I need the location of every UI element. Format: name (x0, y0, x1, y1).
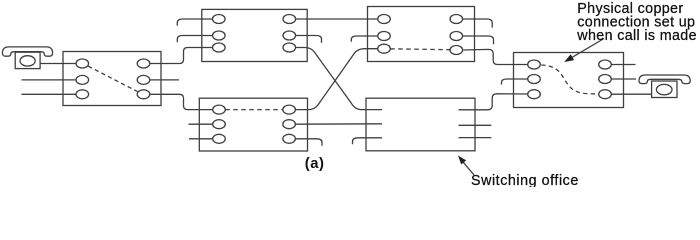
wire: trunk B row3 diagonal down to office E row1 (296, 48, 382, 110)
jack F-L1 (528, 60, 541, 69)
switching office E (bottom right) (366, 98, 475, 151)
jack F-R2 (599, 75, 612, 84)
switching office D (top right) (368, 7, 475, 62)
wire: trunk stub D right row2 (hooked) (463, 36, 494, 44)
jack A-L1 (76, 59, 89, 68)
wire: D row3 stepped down to office F row1 (copper path) (463, 49, 527, 64)
switching office F (right end office) (514, 53, 624, 108)
jack B-L2 (213, 31, 226, 40)
jack B-R2 (283, 31, 296, 40)
jack D-R1 (450, 15, 463, 24)
jack B-L3 (213, 43, 226, 52)
switching office A (left end office) (63, 52, 161, 106)
jack B-L1 (213, 15, 226, 24)
wire: trunk stub C left row2 (189, 123, 213, 125)
wire: trunk C row1 diagonal up to office D row3 (295, 49, 377, 110)
svg-text:when call is made: when call is made (576, 28, 697, 44)
wire: trunk stub F left row2 (hooked) (502, 79, 528, 85)
telephone T1 (left) (2, 47, 52, 69)
jack D-L3 (378, 44, 391, 53)
svg-text:Switching office: Switching office (471, 173, 579, 187)
wire: trunk B row1 to office D row1 (296, 18, 378, 20)
jack C-L3 (213, 134, 226, 143)
dashed connection inside office F (set-up call path) (541, 65, 598, 94)
switching office C (bottom middle) (199, 98, 307, 151)
wire: trunk stub into B row2 (hooked) (177, 36, 212, 43)
wire: trunk stub C row3 (hooked) (295, 139, 322, 146)
dashed connection inside office A (88, 66, 137, 91)
wire: local loop stub A left row2 (22, 79, 77, 81)
wire: A row3 down to office C row1 (150, 94, 213, 109)
wire: trunk stub F right row2 (611, 78, 636, 80)
jack B-R1 (283, 15, 296, 24)
jack D-R2 (450, 32, 463, 41)
jack C-L1 (213, 105, 226, 114)
jack D-L1 (378, 15, 391, 24)
jack C-R2 (283, 120, 296, 129)
jack C-R3 (283, 134, 296, 143)
wire: E left row3 stub (hooked) (353, 138, 383, 144)
jack F-L2 (528, 75, 541, 84)
wire: A row1 up to office B row3 (150, 48, 213, 64)
jack C-R1 (283, 105, 296, 114)
wire: trunk stub A right row2 (150, 79, 179, 81)
jack C-L2 (213, 120, 226, 129)
wire: trunk stub C left row3 (189, 138, 213, 140)
wire: local loop stub A left row3 (22, 93, 77, 95)
annotation arrow: physical copper connection (564, 39, 604, 63)
jack D-R3 (450, 46, 463, 55)
wire: trunk stub F right row1 (611, 64, 635, 66)
wire: trunk stub D right row1 (hooked) (463, 19, 493, 28)
switching office B (top middle) (202, 9, 307, 61)
telephone T2 (right) (639, 75, 690, 98)
jack F-R3 (599, 90, 612, 99)
jack A-L2 (76, 75, 89, 84)
jack A-R3 (137, 90, 150, 99)
jack F-L3 (528, 90, 541, 99)
wire: E right row2 stub (459, 124, 492, 126)
wire: trunk stub B row2 (hooked) (296, 36, 322, 43)
svg-text:(a): (a) (305, 156, 325, 172)
wire: office F row3 to right phone (611, 93, 651, 95)
jack A-L3 (76, 90, 89, 99)
wire: trunk C row2 to office E row2 (295, 123, 382, 125)
wire: left phone to office A row1 (40, 63, 76, 65)
wire: E right row3 stub (459, 137, 492, 139)
wire: trunk stub into B row1 (hooked) (177, 19, 212, 26)
jack B-R3 (283, 43, 296, 52)
dashed connection inside office C row1 (225, 109, 282, 111)
jack A-R1 (137, 59, 150, 68)
wire: trunk stub D left row2 (hooked) (351, 36, 377, 42)
jack D-L2 (378, 32, 391, 41)
annotation arrow: switching office (458, 156, 474, 176)
jack F-R1 (599, 60, 612, 69)
wire: E row1 stepped up to office F row3 (459, 94, 528, 110)
dashed connection inside office D row3 (390, 48, 450, 51)
jack A-R2 (137, 75, 150, 84)
